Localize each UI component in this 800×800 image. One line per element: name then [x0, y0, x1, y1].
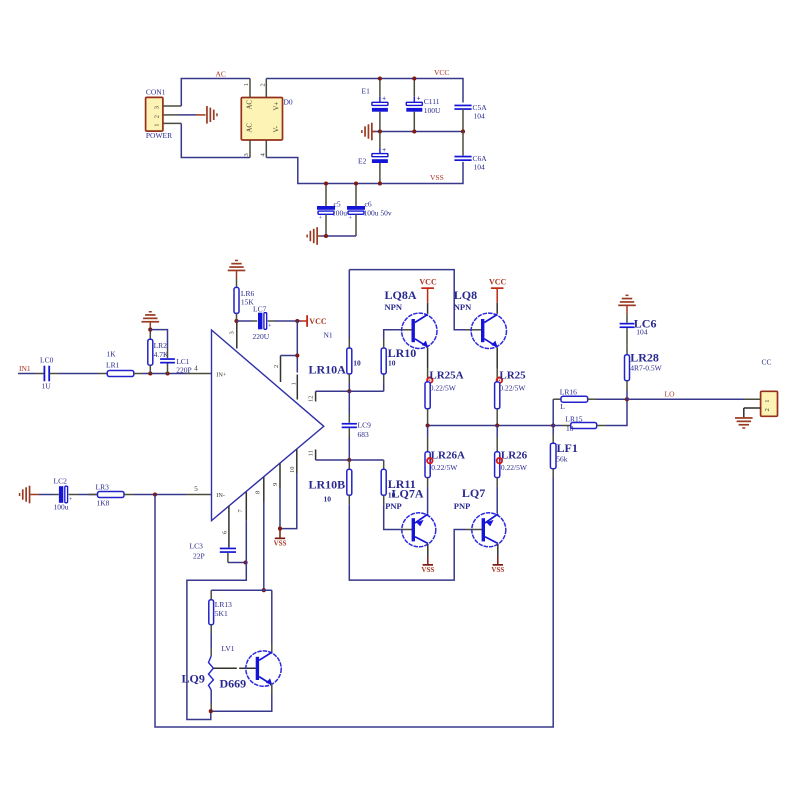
- svg-text:LR26: LR26: [501, 449, 528, 461]
- junction node 12: [347, 389, 351, 393]
- wire left column top: [348, 270, 350, 339]
- wire input: [18, 373, 35, 375]
- svg-text:LC3: LC3: [190, 542, 204, 551]
- svg-text:3: 3: [153, 106, 160, 109]
- wire pins 9,10 to VSS: [280, 473, 297, 529]
- capacitor c6: [347, 184, 392, 237]
- svg-text:C111: C111: [424, 97, 440, 106]
- op-amp pin 10: [289, 449, 297, 473]
- capacitor c5: [317, 184, 347, 237]
- svg-text:10: 10: [324, 495, 332, 504]
- capacitor LC6: [620, 317, 657, 346]
- svg-text:LR2: LR2: [154, 341, 168, 350]
- ground above LC6: [618, 295, 636, 323]
- net label N1: [324, 331, 333, 340]
- svg-text:LR25A: LR25A: [429, 369, 463, 381]
- junction C111 bottom: [412, 129, 416, 133]
- svg-text:LR26A: LR26A: [431, 449, 465, 461]
- wire LC2 to LR3: [78, 494, 98, 496]
- svg-text:4R7-0.5W: 4R7-0.5W: [630, 363, 662, 372]
- junction C5A bottom / C6A top: [461, 129, 465, 133]
- svg-text:10: 10: [289, 467, 296, 474]
- junction output node: [625, 397, 629, 401]
- op-amp pin 2: [273, 356, 281, 383]
- resistor LR10B: [309, 460, 352, 504]
- op-amp pin 1: [290, 356, 297, 400]
- op-amp pin 9: [272, 463, 280, 488]
- junction E1 top: [378, 76, 382, 80]
- resistor LR6: [234, 279, 254, 322]
- svg-text:104: 104: [474, 163, 486, 172]
- svg-text:220U: 220U: [253, 332, 270, 341]
- svg-text:VSS: VSS: [491, 566, 504, 574]
- resistor LR10: [349, 339, 416, 391]
- svg-text:VCC: VCC: [489, 278, 507, 287]
- wire LR1 to op-amp pin 4: [143, 373, 212, 375]
- svg-text:LO: LO: [665, 390, 676, 399]
- resistor LR15: [553, 415, 605, 433]
- wire LR3 to op-amp pin 5: [134, 494, 212, 496]
- svg-text:LR10B: LR10B: [309, 478, 346, 492]
- junction E1 bottom: [378, 129, 382, 133]
- svg-text:100u: 100u: [332, 209, 347, 218]
- junction rail LR25: [495, 423, 499, 427]
- svg-text:c6: c6: [365, 200, 372, 209]
- junction LC1 bottom: [165, 371, 169, 375]
- capacitor LC9: [342, 391, 371, 460]
- potentiometer LV1: [209, 644, 256, 690]
- resistor LR25A: [425, 369, 464, 425]
- bridge rectifier D0: [241, 97, 293, 140]
- svg-text:1U: 1U: [42, 382, 52, 391]
- svg-text:D0: D0: [284, 97, 293, 106]
- svg-text:0.22/5W: 0.22/5W: [499, 383, 526, 392]
- svg-text:D669: D669: [220, 677, 247, 691]
- svg-text:+: +: [268, 322, 272, 329]
- svg-text:c5: c5: [334, 200, 341, 209]
- svg-text:AC: AC: [247, 100, 254, 110]
- svg-text:+: +: [382, 95, 386, 103]
- op-amp pin 3: [229, 321, 237, 349]
- svg-text:LR3: LR3: [96, 483, 110, 492]
- svg-text:POWER: POWER: [146, 131, 172, 140]
- resistor LR26A: [425, 426, 465, 514]
- wire pin 8 down: [263, 502, 265, 590]
- resistor LR25: [495, 369, 527, 425]
- svg-text:0.22/5W: 0.22/5W: [430, 383, 457, 392]
- svg-text:LC7: LC7: [253, 305, 267, 314]
- svg-text:100u 50v: 100u 50v: [364, 209, 392, 218]
- wire output rail: [428, 425, 554, 427]
- pin number 4: [194, 364, 198, 372]
- svg-text:22P: 22P: [193, 551, 205, 560]
- inductor LF1: [550, 426, 577, 478]
- svg-text:VCC: VCC: [419, 278, 437, 287]
- resistor LR3: [89, 483, 135, 508]
- wire LR10 to LQ8A base: [384, 330, 412, 339]
- connector CC: [761, 358, 778, 417]
- transistor LQ8A: [385, 288, 437, 348]
- svg-text:LQ7: LQ7: [462, 486, 485, 500]
- wire LC0 to LR1: [59, 373, 99, 375]
- svg-text:4: 4: [194, 364, 198, 372]
- net label VSS: [430, 173, 444, 182]
- svg-text:2: 2: [153, 115, 160, 118]
- svg-text:1K: 1K: [107, 350, 117, 359]
- junction pins 1-2: [295, 353, 299, 357]
- wire pin 7 feedback loop: [187, 521, 246, 720]
- svg-text:NPN: NPN: [454, 302, 472, 312]
- resistor LR2: [148, 330, 169, 374]
- ground above LR6: [228, 260, 246, 279]
- op-amp pin 8: [254, 477, 263, 502]
- junction pin7/LC3: [244, 560, 248, 564]
- svg-text:0.22/5W: 0.22/5W: [431, 463, 458, 472]
- ground at IN- input: [19, 486, 39, 504]
- wire LC7 to VCC: [275, 320, 302, 322]
- svg-text:VSS: VSS: [274, 540, 287, 548]
- power symbol VSS at LQ7: [491, 544, 504, 574]
- junction rail LR25A: [426, 423, 430, 427]
- resistor LR28: [625, 346, 663, 400]
- svg-text:E1: E1: [362, 87, 371, 96]
- transistor LQ9 (D669): [182, 651, 282, 691]
- svg-text:N1: N1: [324, 331, 333, 340]
- resistor LR13: [209, 590, 232, 633]
- junction LR6 bottom / pin3: [234, 319, 238, 323]
- svg-text:LQ7A: LQ7A: [392, 486, 424, 500]
- svg-text:PNP: PNP: [385, 501, 402, 511]
- wire bridge V- to VSS rail: [266, 158, 463, 184]
- svg-text:1: 1: [290, 382, 297, 385]
- svg-text:LR15: LR15: [565, 415, 582, 424]
- mid rail ground wire: [372, 131, 463, 133]
- wire LQ8 emitter to LR25: [496, 347, 498, 382]
- svg-text:5: 5: [194, 485, 198, 493]
- power symbol VCC at LQ8: [489, 278, 507, 314]
- svg-text:0.22/5W: 0.22/5W: [501, 463, 528, 472]
- capacitor LC0: [35, 356, 59, 391]
- svg-text:10: 10: [388, 359, 396, 368]
- svg-text:AC: AC: [247, 123, 254, 133]
- power symbol VSS at op-amp: [274, 529, 287, 548]
- svg-text:2: 2: [260, 83, 267, 86]
- wire LQ7 base stub: [466, 529, 482, 531]
- junction E2 bottom: [378, 181, 382, 185]
- svg-text:IN+: IN+: [216, 371, 227, 378]
- resistor LR10A: [309, 339, 361, 383]
- svg-text:LR13: LR13: [215, 600, 232, 609]
- pin number 5: [194, 485, 198, 493]
- ground at c5/c6: [306, 227, 321, 245]
- svg-text:100U: 100U: [424, 106, 441, 115]
- junction pin8 node: [262, 588, 266, 592]
- capacitor C111: [406, 79, 441, 132]
- svg-text:LC9: LC9: [358, 421, 372, 430]
- capacitor LC2: [39, 477, 78, 512]
- junction feedback node: [153, 492, 157, 496]
- svg-text:LR1: LR1: [106, 361, 120, 370]
- ground at CON1 pin2: [206, 106, 218, 124]
- capacitor C5A: [454, 103, 487, 132]
- capacitor LC7: [237, 305, 275, 342]
- capacitor C6A: [454, 132, 487, 172]
- wire LV1 to emitter node: [210, 690, 212, 711]
- wire op-amp pin11 to column: [316, 459, 350, 461]
- svg-text:220P: 220P: [176, 365, 191, 374]
- wire LC3 to pin7 wire: [228, 562, 246, 564]
- junction VCC feed: [295, 319, 299, 323]
- ground at mid rail: [361, 123, 376, 141]
- op-amp pin 7: [237, 492, 246, 521]
- wire LQ9 emitter: [211, 684, 272, 712]
- svg-text:AC: AC: [216, 69, 226, 78]
- svg-text:CC: CC: [762, 358, 772, 367]
- svg-text:LR28: LR28: [630, 351, 659, 365]
- wire LR16 to output node: [597, 398, 628, 400]
- capacitor LC1: [160, 349, 192, 374]
- junction VSS op-amp: [278, 527, 282, 531]
- wire LR10B to LQ7 base: [349, 504, 466, 580]
- svg-text:CON1: CON1: [146, 88, 166, 97]
- svg-text:683: 683: [358, 430, 370, 439]
- wire global feedback bottom: [155, 478, 553, 728]
- svg-text:IN-: IN-: [216, 492, 225, 499]
- resistor LR26: [495, 426, 528, 514]
- net label IN1: [19, 364, 31, 373]
- junction c6 top: [354, 181, 358, 185]
- svg-text:1: 1: [764, 399, 771, 402]
- bridge D0 pin 4: [260, 140, 267, 158]
- svg-text:3: 3: [229, 331, 236, 334]
- svg-text:V+: V+: [274, 102, 281, 111]
- svg-text:5K1: 5K1: [215, 609, 228, 618]
- capacitor LC3: [190, 542, 237, 563]
- svg-text:104: 104: [636, 328, 648, 337]
- svg-text:VSS: VSS: [430, 173, 444, 182]
- wire LR13 to LV1: [210, 634, 212, 649]
- svg-text:PNP: PNP: [454, 501, 471, 511]
- svg-text:8: 8: [254, 491, 261, 494]
- svg-text:10: 10: [353, 359, 361, 368]
- net label LO: [665, 390, 676, 399]
- connector CON1 (POWER): [146, 88, 173, 141]
- svg-text:2: 2: [273, 365, 280, 368]
- svg-text:LR16: LR16: [560, 387, 577, 396]
- svg-text:LR10A: LR10A: [309, 363, 347, 377]
- wire VCC to pins 1,2: [281, 321, 298, 356]
- wire LR10A to node12: [348, 383, 350, 391]
- wire LR15 to output node: [606, 399, 628, 425]
- error marker LR26: [497, 458, 502, 463]
- junction c5 bottom: [324, 234, 328, 238]
- svg-text:LF1: LF1: [557, 441, 578, 455]
- svg-text:2: 2: [764, 408, 771, 411]
- svg-text:V-: V-: [274, 125, 281, 132]
- transistor LQ7A: [385, 486, 436, 546]
- inductor LR16: [553, 387, 596, 411]
- net label VCC: [434, 68, 449, 77]
- svg-text:56k: 56k: [556, 455, 568, 464]
- wire CON1 pin3 to bridge AC1: [163, 79, 250, 107]
- wire LR2 top to LC1 top: [150, 330, 167, 349]
- capacitor E1: [362, 79, 388, 132]
- junction node 11: [347, 458, 351, 462]
- svg-text:9: 9: [272, 483, 279, 486]
- svg-text:+: +: [319, 215, 323, 222]
- op-amp pin 12: [308, 391, 316, 402]
- junction LR2 top: [148, 328, 152, 332]
- svg-text:100u: 100u: [54, 503, 69, 512]
- svg-text:10: 10: [566, 424, 574, 433]
- wire node11 to LR11: [349, 459, 383, 461]
- junction rail output: [551, 423, 555, 427]
- svg-text:LC2: LC2: [54, 477, 68, 486]
- svg-text:VCC: VCC: [434, 68, 449, 77]
- svg-text:+: +: [349, 215, 353, 222]
- wire output stage top: [349, 270, 466, 330]
- wire op-amp pin12 to column: [316, 390, 350, 392]
- wire LR11 to LQ7A base: [384, 504, 413, 529]
- ground above LR2: [142, 311, 160, 330]
- wire rail to LR16: [552, 399, 554, 425]
- bridge D0 pin 3: [243, 140, 250, 158]
- bridge D0 pin 2: [260, 79, 267, 98]
- svg-text:E2: E2: [358, 157, 367, 166]
- ground at CC: [735, 417, 753, 429]
- junction LR2 bottom: [148, 371, 152, 375]
- svg-text:+: +: [417, 95, 421, 103]
- power symbol VCC at LQ8A: [419, 278, 437, 314]
- wire LQ8A emitter to LR25A: [427, 347, 429, 382]
- wire c5/c6 ground: [321, 235, 356, 237]
- power symbol VSS at LQ7A: [421, 544, 434, 574]
- svg-text:1K8: 1K8: [97, 499, 110, 508]
- svg-text:LC0: LC0: [40, 356, 54, 365]
- error marker LR25A: [427, 378, 432, 383]
- resistor LR11: [381, 460, 416, 504]
- wire CON1 pin1 to bridge AC2: [163, 123, 250, 157]
- wire VCC rail top: [266, 79, 463, 103]
- svg-text:NPN: NPN: [385, 302, 403, 312]
- junction c5 top: [324, 181, 328, 185]
- svg-text:LQ9: LQ9: [182, 672, 205, 686]
- svg-text:VCC: VCC: [309, 317, 327, 326]
- op-amp U1 triangle: [212, 330, 324, 521]
- junction emitter/LV1: [209, 709, 213, 713]
- wire CON1 pin2 to ground: [163, 114, 206, 116]
- svg-text:+: +: [382, 146, 386, 154]
- wire LQ8 base stub: [466, 329, 482, 331]
- op-amp pin 11: [308, 450, 316, 461]
- wire collector drop: [271, 590, 273, 653]
- error marker LR26A: [427, 458, 432, 463]
- op-amp pin 6: [221, 506, 229, 548]
- svg-text:4.7K: 4.7K: [154, 350, 169, 359]
- bridge D0 pin 1: [243, 79, 250, 98]
- svg-text:104: 104: [474, 112, 486, 121]
- capacitor E2: [358, 132, 388, 184]
- svg-text:12: 12: [308, 396, 315, 403]
- svg-text:IN1: IN1: [19, 364, 31, 373]
- wire output LO: [627, 398, 744, 400]
- svg-text:1: 1: [153, 124, 160, 127]
- svg-text:L: L: [560, 402, 565, 411]
- svg-text:LQ8: LQ8: [454, 288, 477, 302]
- resistor LR1: [99, 350, 143, 377]
- svg-text:+: +: [69, 496, 73, 503]
- net label AC: [216, 69, 226, 78]
- svg-text:1: 1: [243, 83, 250, 86]
- junction C111 top: [412, 76, 416, 80]
- svg-text:3: 3: [243, 153, 250, 156]
- transistor LQ7: [454, 486, 506, 547]
- error marker LR25: [497, 378, 502, 383]
- power symbol VCC at op-amp: [301, 315, 327, 327]
- wire LR13 top rail: [211, 589, 272, 591]
- transistor LQ8: [454, 288, 507, 348]
- svg-text:LV1: LV1: [222, 644, 235, 653]
- svg-text:VSS: VSS: [421, 566, 434, 574]
- wire CC pin2 to ground: [744, 408, 761, 417]
- wire CC pin1 stub: [744, 398, 761, 400]
- svg-text:11: 11: [308, 450, 315, 456]
- svg-text:LQ8A: LQ8A: [385, 288, 417, 302]
- svg-text:LR25: LR25: [499, 369, 526, 381]
